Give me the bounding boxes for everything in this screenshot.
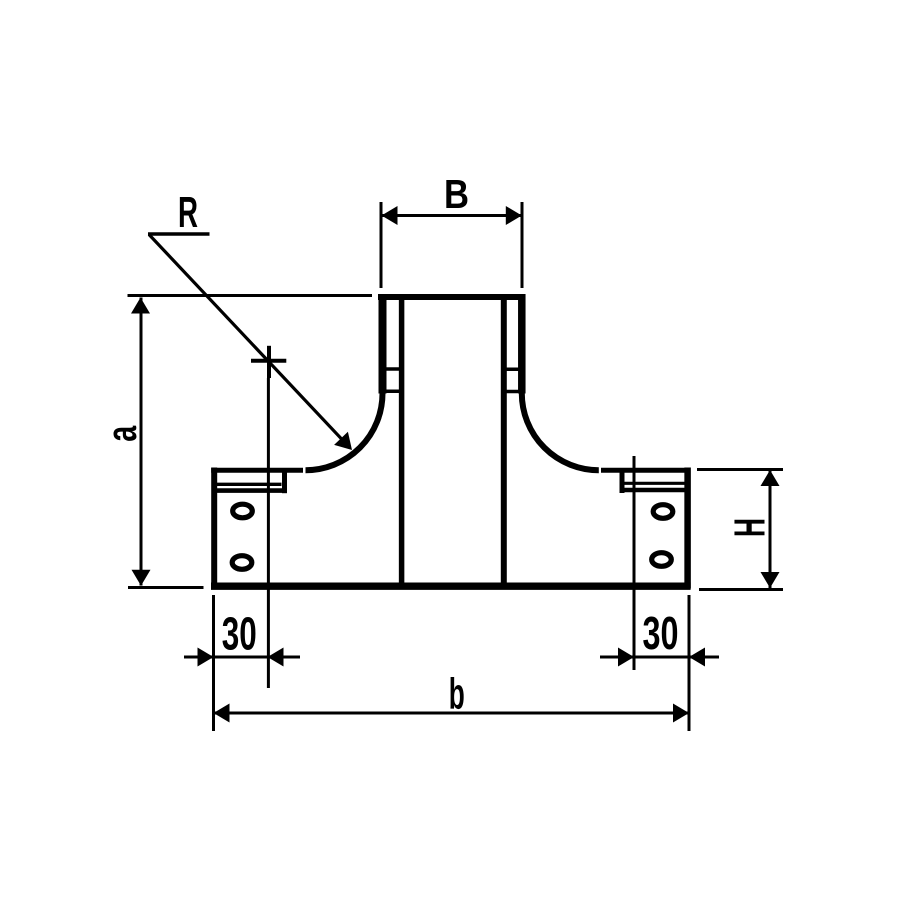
radius center cross vertical bbox=[267, 346, 271, 378]
left wall tick lower bbox=[384, 389, 402, 393]
arrow right30 right bbox=[689, 648, 705, 667]
left step line lower bbox=[217, 488, 288, 493]
left inner wall bbox=[399, 297, 405, 583]
right hole lower bbox=[652, 553, 672, 567]
svg-text:H: H bbox=[727, 518, 775, 537]
arrow right30 left bbox=[618, 648, 634, 667]
left step vertical edge bbox=[282, 471, 287, 494]
arrow b right bbox=[673, 704, 689, 723]
right step line upper bbox=[625, 482, 687, 485]
dimension B extension line left bbox=[380, 202, 383, 288]
left hole upper bbox=[233, 504, 253, 518]
right inner wall bbox=[501, 297, 507, 583]
arrow a down bbox=[132, 570, 151, 586]
extension line from cross down to 30 dim bbox=[267, 378, 270, 688]
left outer wall bbox=[379, 294, 387, 394]
left fillet arc R bbox=[306, 393, 383, 470]
svg-text:a: a bbox=[98, 425, 145, 442]
arrow left30 right bbox=[268, 648, 284, 667]
right flange outer edge bbox=[684, 468, 691, 589]
left wall tick upper bbox=[384, 367, 402, 371]
right 30 extension line right bbox=[688, 595, 691, 731]
arrow B right bbox=[506, 206, 522, 225]
right wall tick lower bbox=[504, 390, 522, 394]
radius leader underline bbox=[148, 232, 210, 236]
arrow radius leader bbox=[334, 432, 352, 450]
dimension H extension top bbox=[697, 468, 783, 471]
dimension a line bbox=[140, 298, 143, 586]
right flange top face bbox=[601, 468, 691, 473]
left flange top face bbox=[211, 468, 303, 473]
dimension H line bbox=[769, 471, 772, 588]
dimension b line bbox=[214, 712, 690, 715]
radius leader line bbox=[149, 235, 348, 446]
left step line upper bbox=[217, 483, 282, 486]
left hole lower bbox=[232, 556, 252, 570]
right step vertical edge bbox=[620, 471, 625, 494]
right fillet arc R bbox=[522, 393, 599, 470]
base bottom edge bbox=[211, 583, 691, 590]
top edge of socket bbox=[378, 294, 526, 300]
dimension a extension line top bbox=[128, 294, 373, 297]
svg-text:B: B bbox=[444, 171, 469, 217]
arrow B left bbox=[382, 206, 398, 225]
arrow b left bbox=[214, 704, 230, 723]
right hole upper bbox=[653, 505, 673, 519]
radius center cross horizontal bbox=[251, 359, 286, 363]
dimension b extension left bbox=[212, 690, 215, 731]
svg-text:R: R bbox=[178, 189, 198, 237]
right step line lower bbox=[620, 488, 688, 492]
right wall tick upper bbox=[504, 368, 522, 372]
arrow left30 left bbox=[198, 648, 214, 667]
svg-text:b: b bbox=[449, 671, 465, 719]
left 30 dimension line and tails bbox=[184, 656, 300, 659]
svg-text:30: 30 bbox=[643, 607, 679, 659]
arrow H down bbox=[761, 572, 780, 588]
left flange outer edge bbox=[211, 468, 217, 589]
right 30 dimension line and tails bbox=[600, 656, 719, 659]
right outer wall bbox=[518, 294, 526, 394]
arrow a up bbox=[131, 298, 150, 314]
left 30 extension line bbox=[212, 595, 215, 690]
dimension B line bbox=[381, 214, 522, 217]
dimension H extension bottom bbox=[699, 588, 783, 591]
svg-text:30: 30 bbox=[222, 608, 257, 660]
dimension a extension line bottom bbox=[128, 586, 204, 589]
dimension B extension line right bbox=[521, 202, 524, 288]
right 30 extension line left bbox=[633, 456, 636, 670]
arrow H up bbox=[761, 470, 780, 486]
